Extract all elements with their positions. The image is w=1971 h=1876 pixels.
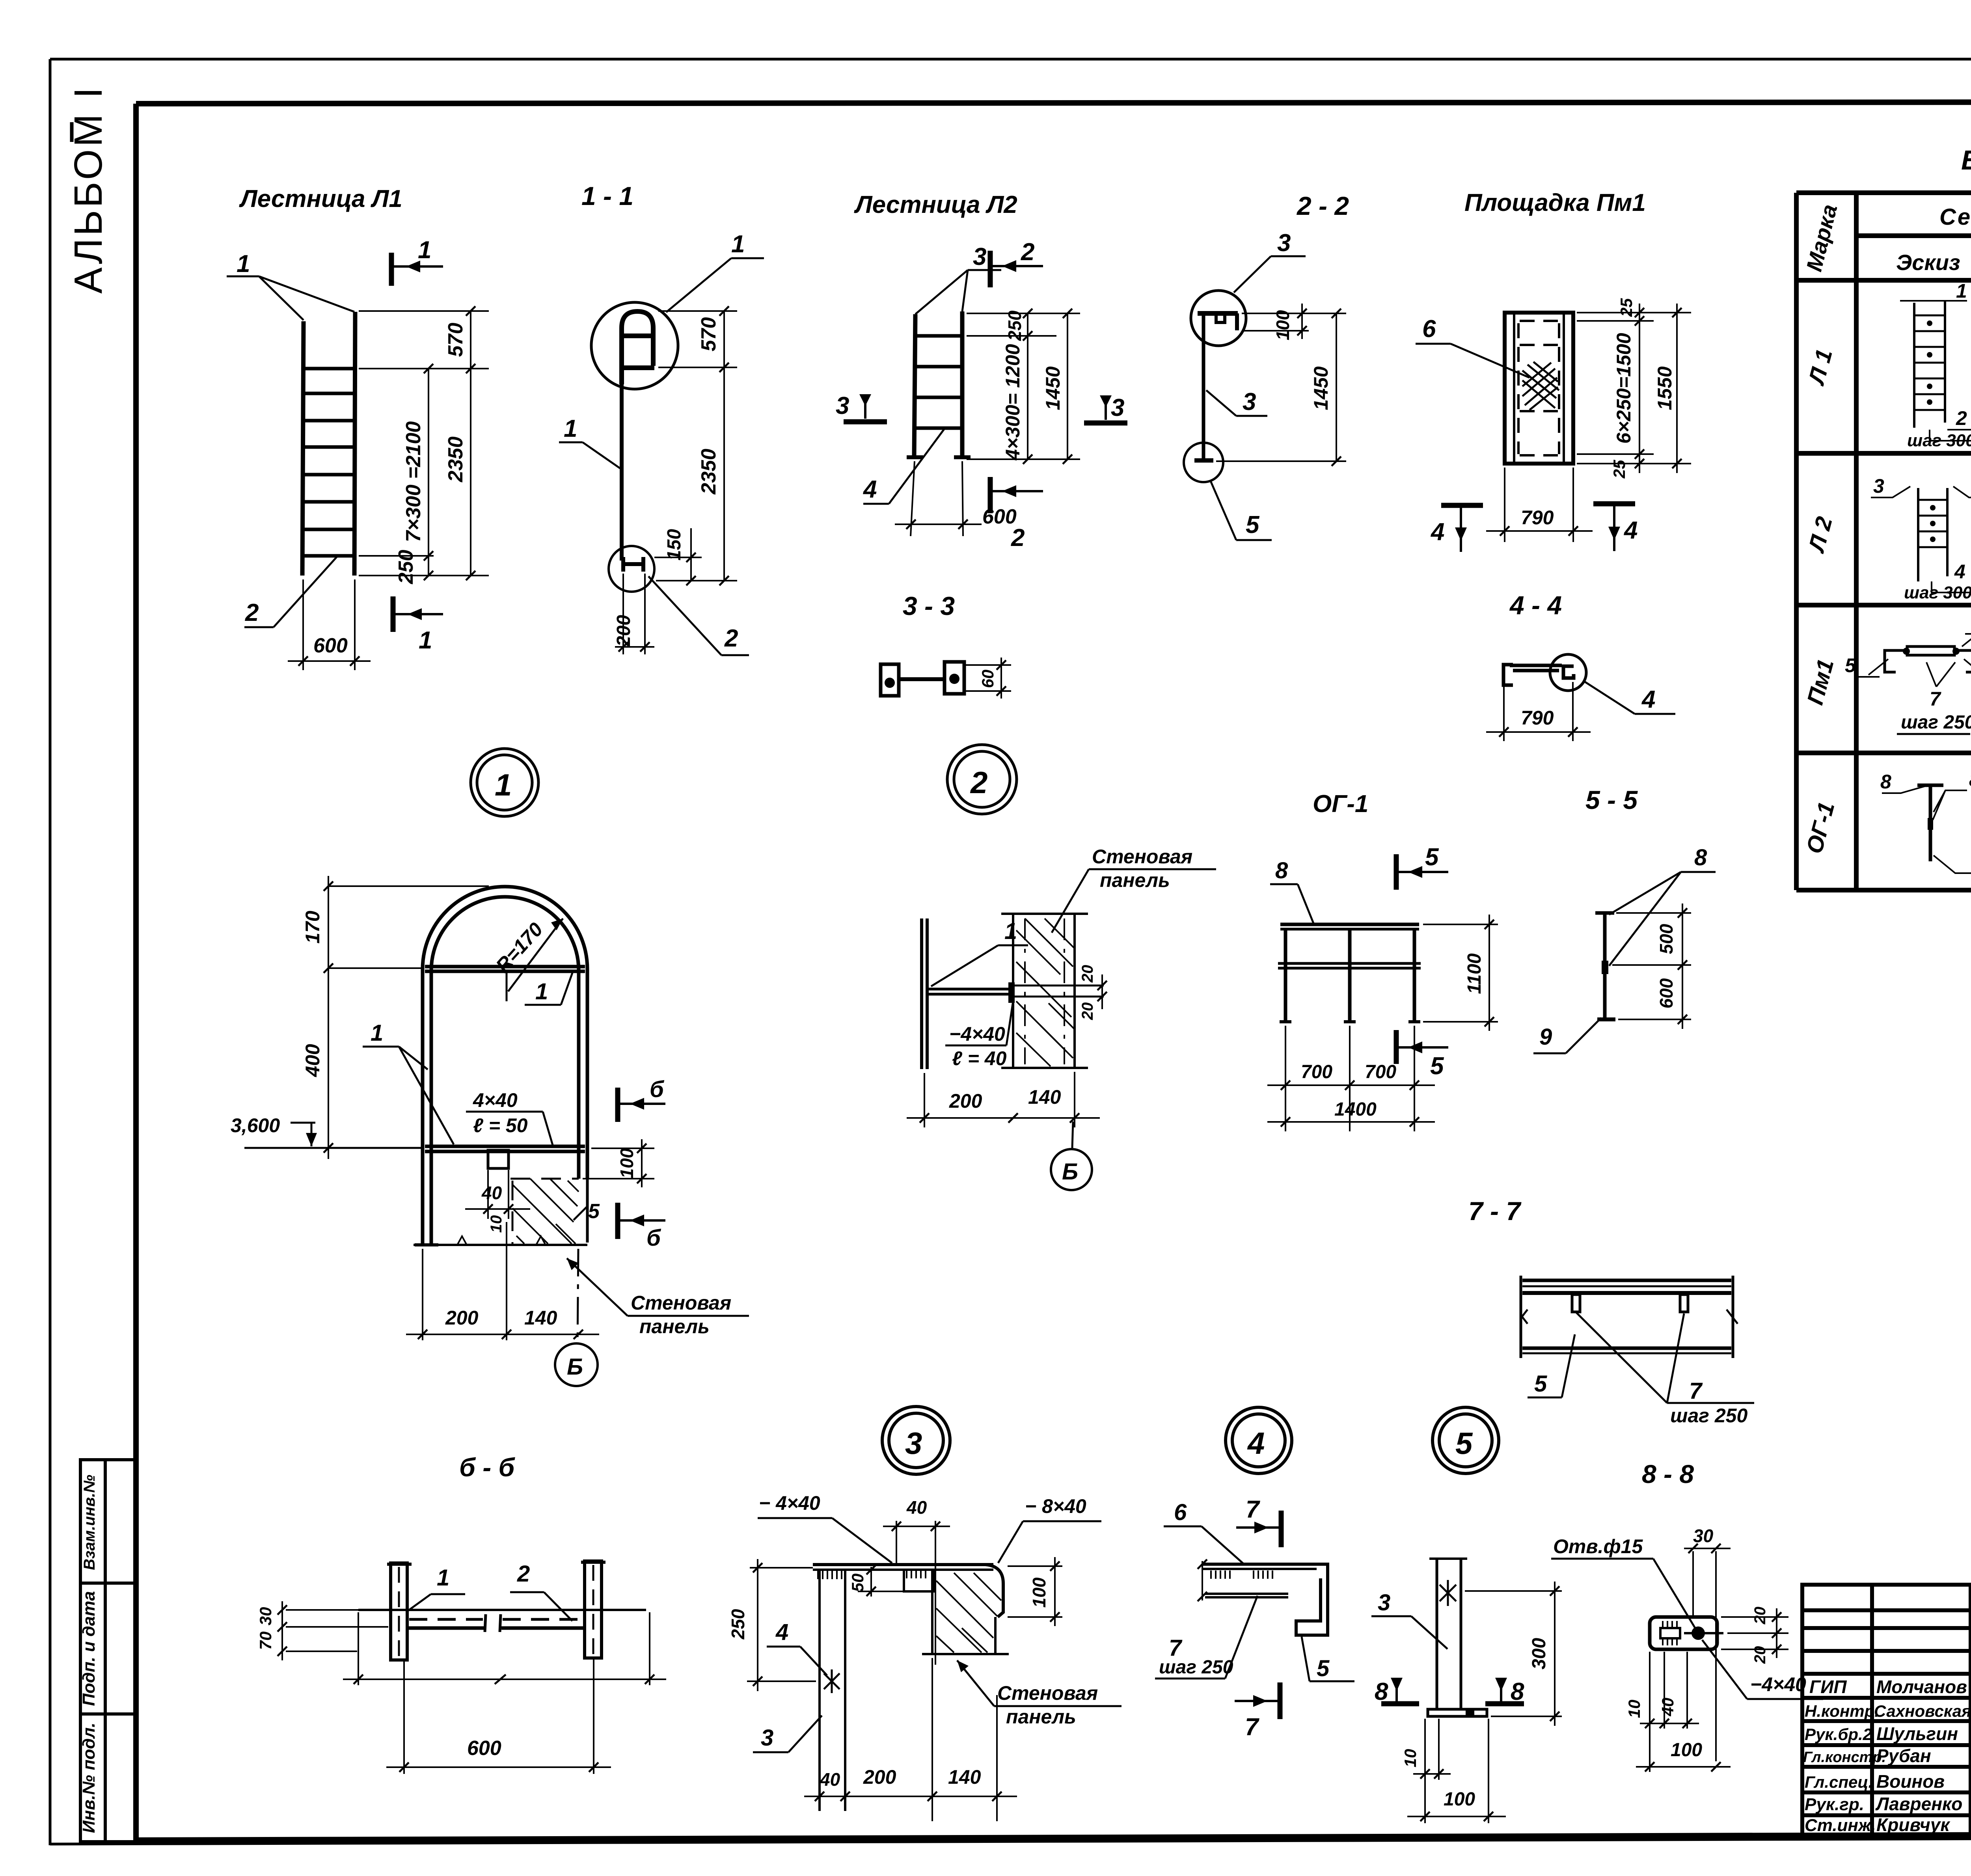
svg-text:150: 150	[664, 529, 685, 561]
svg-text:Лавренко: Лавренко	[1875, 1794, 1962, 1814]
svg-text:1550: 1550	[1654, 366, 1676, 410]
svg-text:2350: 2350	[697, 449, 720, 495]
det4 top plate	[1202, 1561, 1328, 1635]
header row lines	[1856, 233, 1971, 238]
svg-text:Рук.бр.2: Рук.бр.2	[1805, 1725, 1872, 1744]
svg-text:2 - 2: 2 - 2	[1296, 191, 1349, 220]
svg-text:2: 2	[517, 1561, 530, 1587]
svg-text:40: 40	[906, 1497, 927, 1518]
OG-1 bottom dims 700 700 1400	[1267, 1026, 1435, 1131]
svg-text:7: 7	[1930, 688, 1941, 710]
det3 weld X on strap	[824, 1669, 840, 1693]
detail circle 5 callout	[1433, 1407, 1499, 1474]
svg-text:Гл.констр.: Гл.констр.	[1803, 1749, 1886, 1766]
dim 100 det3	[1008, 1557, 1062, 1626]
svg-text:10: 10	[1401, 1749, 1420, 1768]
svg-text:3: 3	[905, 1426, 922, 1461]
section mark 2 top	[990, 251, 1043, 287]
svg-text:Н.контр.: Н.контр.	[1805, 1702, 1879, 1720]
svg-text:1: 1	[535, 979, 548, 1004]
8-8 dims 20 20	[1721, 1608, 1788, 1658]
svg-text:30: 30	[1693, 1526, 1714, 1546]
svg-text:140: 140	[948, 1766, 981, 1788]
svg-text:5: 5	[1317, 1656, 1330, 1681]
8-8 plate	[1650, 1617, 1717, 1649]
label 2 bottom leader	[648, 576, 749, 655]
det4 comb welds	[1211, 1570, 1272, 1579]
svg-text:Ст.инж.: Ст.инж.	[1805, 1816, 1876, 1835]
1-1 rail hook	[622, 311, 654, 384]
svg-text:100: 100	[1671, 1740, 1702, 1760]
table column lines	[1854, 193, 1859, 890]
svg-text:Сечение: Сечение	[1939, 204, 1971, 230]
svg-text:2: 2	[245, 599, 259, 626]
svg-text:3: 3	[1111, 394, 1124, 421]
det5 post	[1429, 1559, 1467, 1709]
svg-text:АЛЬБОМ I: АЛЬБОМ I	[66, 85, 110, 294]
section mark b bottom	[618, 1203, 665, 1239]
Pm1 channel inner lines	[1513, 313, 1515, 464]
svg-text:Стеновая: Стеновая	[631, 1292, 731, 1314]
block divider Pm1/OG1	[1796, 751, 1971, 755]
bottom dims 200 140	[406, 1222, 599, 1340]
svg-text:790: 790	[1521, 507, 1554, 529]
svg-text:400: 400	[302, 1044, 324, 1077]
strap to wall	[927, 988, 1012, 991]
1-1 dim 200 below	[615, 574, 654, 654]
svg-text:7: 7	[1246, 1496, 1260, 1523]
6-6 dim 600	[386, 1660, 611, 1774]
feet	[415, 1243, 438, 1246]
svg-text:ГИП: ГИП	[1809, 1677, 1847, 1697]
detail 2 ladder rail	[922, 918, 1012, 1069]
label 4 leader	[889, 428, 945, 504]
6-6 rung tube	[358, 1610, 646, 1632]
svg-text:шаг 300: шаг 300	[1904, 583, 1971, 602]
svg-text:Стеновая: Стеновая	[1092, 846, 1192, 868]
svg-text:ℓ = 50: ℓ = 50	[473, 1114, 528, 1136]
svg-text:1: 1	[371, 1020, 383, 1046]
det3 corner bar bend	[985, 1565, 1003, 1617]
svg-text:20: 20	[1751, 1646, 1769, 1664]
det5 weld X	[1440, 1580, 1456, 1606]
svg-text:2: 2	[724, 625, 738, 652]
svg-text:10: 10	[488, 1215, 505, 1233]
L1 bottom dim 600	[288, 579, 371, 670]
svg-text:Рук.гр.: Рук.гр.	[1805, 1795, 1864, 1814]
svg-text:панель: панель	[1100, 869, 1170, 891]
axis B det2	[1051, 1122, 1092, 1190]
svg-text:− 8×40: − 8×40	[1025, 1495, 1086, 1517]
svg-text:1: 1	[237, 250, 250, 278]
arch top chord	[425, 965, 585, 969]
2-2 anchor detail circle	[1184, 443, 1223, 482]
svg-text:1 - 1: 1 - 1	[581, 181, 633, 211]
svg-text:570: 570	[697, 317, 720, 352]
label 1 left leg	[363, 1047, 454, 1144]
R=170 radius	[507, 918, 563, 1001]
det3 pocket	[858, 1570, 934, 1591]
svg-text:2: 2	[1021, 238, 1034, 266]
dim 250 det3	[747, 1559, 816, 1691]
svg-text:140: 140	[524, 1307, 557, 1329]
block divider L2/Pm1	[1796, 603, 1971, 607]
4-4 dim 790	[1486, 676, 1591, 741]
7-7 deck assembly	[1521, 1276, 1738, 1358]
det5 bottom dims 10 100	[1407, 1719, 1506, 1823]
svg-text:570: 570	[444, 323, 467, 357]
svg-text:1: 1	[1956, 280, 1967, 302]
section mark 3 left	[844, 394, 887, 422]
svg-text:Шульгин: Шульгин	[1876, 1723, 1958, 1744]
svg-text:б: б	[650, 1077, 665, 1102]
svg-text:40: 40	[820, 1769, 840, 1790]
2-2 bar	[1202, 313, 1205, 460]
label 5 bottom	[1210, 480, 1272, 540]
svg-text:4: 4	[1954, 561, 1965, 583]
svg-text:4: 4	[775, 1619, 788, 1645]
6-6 total length dim	[343, 1612, 666, 1685]
ladder L1 left rail	[227, 276, 355, 576]
section mark 3 right	[1084, 395, 1127, 423]
svg-text:600: 600	[1656, 978, 1677, 1008]
svg-text:1100: 1100	[1464, 953, 1485, 994]
svg-text:70: 70	[256, 1632, 275, 1650]
axis B arch	[555, 1249, 598, 1386]
2-2 top detail circle	[1191, 291, 1246, 346]
svg-text:1: 1	[564, 415, 577, 442]
svg-text:50: 50	[848, 1574, 867, 1592]
1-1 anchor detail circle	[609, 546, 654, 592]
section mark 1 bottom	[393, 596, 443, 632]
svg-text:3: 3	[761, 1725, 773, 1751]
svg-text:5: 5	[1845, 654, 1856, 676]
svg-text:100: 100	[1029, 1577, 1049, 1608]
6-6 left post	[387, 1561, 605, 1660]
section mark 7 top det4	[1236, 1511, 1281, 1547]
svg-text:1: 1	[495, 768, 512, 802]
L2 dims right	[967, 313, 1080, 459]
svg-text:Кривчук: Кривчук	[1876, 1815, 1951, 1835]
svg-text:2350: 2350	[444, 436, 467, 483]
det3 strap vertical	[820, 1570, 845, 1811]
svg-text:шаг 250: шаг 250	[1670, 1405, 1747, 1427]
svg-text:1: 1	[1004, 918, 1017, 944]
svg-text:300: 300	[1529, 1638, 1550, 1669]
svg-text:4: 4	[1623, 517, 1638, 544]
svg-text:500: 500	[1656, 924, 1677, 954]
svg-text:700: 700	[1301, 1062, 1332, 1082]
svg-text:8: 8	[1275, 858, 1288, 883]
arch mid strut	[425, 1145, 585, 1148]
4-4 keyhole detail circle	[1550, 654, 1586, 691]
svg-text:панель: панель	[639, 1315, 710, 1338]
Pm1 hidden plate dashed	[1518, 321, 1559, 455]
eskiz sketch Pm1	[1885, 646, 1971, 672]
svg-text:1: 1	[731, 231, 745, 258]
svg-text:20: 20	[1079, 1002, 1096, 1021]
svg-text:7: 7	[1245, 1714, 1259, 1741]
1-1 bottom anchor	[623, 557, 645, 572]
svg-text:3: 3	[1873, 475, 1884, 497]
4-4 channel left	[1503, 665, 1562, 685]
svg-text:25: 25	[1610, 460, 1628, 479]
svg-text:3: 3	[1243, 388, 1256, 415]
svg-text:7: 7	[1689, 1378, 1703, 1404]
svg-text:790: 790	[1521, 707, 1554, 729]
ladder L1 rungs	[303, 369, 355, 556]
svg-text:40: 40	[1658, 1698, 1677, 1717]
svg-text:Подп. и дата: Подп. и дата	[79, 1591, 99, 1706]
det3 comb welds	[818, 1570, 926, 1579]
2-2 dims right	[1216, 304, 1346, 461]
svg-text:200: 200	[949, 1090, 982, 1112]
svg-text:5: 5	[1430, 1053, 1444, 1080]
2-2 bottom anchor	[1194, 458, 1213, 463]
svg-text:2: 2	[1011, 524, 1025, 551]
svg-text:шаг 250: шаг 250	[1159, 1657, 1233, 1678]
svg-text:5: 5	[1534, 1371, 1547, 1397]
anchor plate at wall	[1008, 982, 1015, 1003]
svg-text:7×300 =2100: 7×300 =2100	[402, 421, 425, 542]
svg-text:Стеновая: Стеновая	[997, 1682, 1098, 1704]
svg-text:4: 4	[1430, 518, 1444, 546]
svg-text:200: 200	[613, 615, 634, 647]
svg-text:−4×40: −4×40	[1750, 1673, 1806, 1695]
label 6 leader	[1416, 344, 1529, 378]
section mark 7 bottom det4	[1235, 1682, 1280, 1719]
svg-text:шаг 250: шаг 250	[1901, 712, 1971, 733]
svg-text:б: б	[646, 1225, 661, 1251]
label 3 top	[1234, 256, 1306, 292]
svg-text:2: 2	[970, 765, 987, 800]
svg-text:4: 4	[1641, 686, 1655, 713]
section mark 5 top	[1396, 854, 1448, 890]
svg-text:− 4×40: − 4×40	[759, 1492, 820, 1514]
svg-text:20: 20	[1079, 965, 1096, 983]
det5 base plate	[1428, 1709, 1487, 1716]
svg-text:6×250=1500: 6×250=1500	[1613, 333, 1635, 443]
svg-text:3: 3	[1277, 229, 1291, 257]
dim 40 pocket	[465, 1170, 530, 1219]
8-8 dims 10 40 100	[1636, 1652, 1731, 1772]
detail circle 3 callout	[882, 1407, 950, 1474]
eskiz sketch L1	[1900, 300, 1971, 441]
svg-text:6: 6	[1422, 315, 1436, 343]
1-1 rail hook detail circle	[591, 302, 678, 389]
svg-text:3 - 3: 3 - 3	[903, 591, 955, 620]
svg-text:4: 4	[1247, 1426, 1265, 1461]
svg-text:Лестница Л2: Лестница Л2	[854, 191, 1017, 218]
wall hatch block	[512, 1179, 579, 1244]
svg-text:250: 250	[395, 550, 417, 585]
section mark 4 left of plan	[1441, 505, 1483, 552]
svg-text:Эскиз: Эскиз	[1896, 250, 1960, 275]
det5 dim 300	[1465, 1582, 1562, 1726]
detail circle 2 callout	[947, 745, 1017, 814]
svg-text:8 - 8: 8 - 8	[1642, 1459, 1694, 1489]
section mark 5 bottom	[1396, 1030, 1448, 1064]
svg-text:30: 30	[256, 1607, 275, 1626]
3-3 rung	[899, 677, 945, 681]
svg-text:Ведомость элементов: Ведомость элементов	[1961, 145, 1971, 175]
L1 dimensions right	[359, 311, 489, 576]
svg-text:8: 8	[1880, 771, 1891, 793]
3-3 left bar section	[881, 662, 964, 696]
svg-text:Гл.спец.: Гл.спец.	[1805, 1773, 1873, 1791]
svg-text:1450: 1450	[1042, 366, 1064, 410]
svg-text:1: 1	[437, 1565, 449, 1591]
dims 20 20 det2	[1101, 974, 1103, 1009]
svg-text:панель: панель	[1006, 1706, 1076, 1728]
anchor rod in wall	[1015, 986, 1104, 997]
title block signature table	[1802, 1585, 1971, 1837]
label 4 leader	[1584, 681, 1675, 714]
svg-text:5: 5	[1455, 1426, 1473, 1461]
L2 bottom dim 600	[895, 461, 982, 536]
dim 100 right	[583, 1139, 654, 1187]
svg-text:Взам.инв.№: Взам.инв.№	[81, 1475, 98, 1570]
svg-text:9: 9	[1539, 1024, 1552, 1050]
svg-text:4 - 4: 4 - 4	[1509, 591, 1562, 620]
post feet	[1280, 1020, 1291, 1023]
svg-text:60: 60	[978, 670, 997, 688]
label 3 leader	[915, 270, 1001, 314]
6-6 dims left 30 70	[282, 1601, 388, 1660]
svg-text:Молчанов: Молчанов	[1876, 1677, 1967, 1697]
svg-text:3,600: 3,600	[231, 1114, 280, 1136]
label 1 top leader	[666, 258, 764, 312]
svg-text:Инв.№ подл.: Инв.№ подл.	[79, 1723, 99, 1833]
5-5 post	[1595, 913, 1615, 1019]
det3 bottom dims 40 200 140	[804, 1658, 1017, 1821]
svg-text:20: 20	[1751, 1607, 1769, 1625]
ladder L2 rails	[863, 270, 1001, 504]
svg-text:шаг 300: шаг 300	[1907, 431, 1971, 450]
3-3 dim 60	[966, 658, 1011, 699]
ground line	[414, 1244, 587, 1246]
arch frame outer	[415, 887, 587, 1245]
7-7 strap tabs	[1572, 1295, 1580, 1312]
svg-text:6: 6	[1174, 1500, 1187, 1525]
section mark 2 bottom	[990, 477, 1043, 513]
section mark 1 top	[391, 253, 443, 286]
svg-text:Рубан: Рубан	[1876, 1746, 1931, 1766]
block divider L1/L2	[1796, 451, 1971, 456]
left side stamp strip	[80, 1460, 135, 1842]
svg-text:1400: 1400	[1334, 1099, 1377, 1120]
svg-text:700: 700	[1365, 1062, 1396, 1082]
svg-text:2: 2	[1956, 407, 1967, 429]
8-8 strap section hatched	[1660, 1628, 1680, 1638]
1-1 dim 150	[654, 528, 702, 581]
detail circle 4 callout	[1226, 1407, 1292, 1474]
svg-text:100: 100	[1272, 310, 1293, 340]
svg-text:25: 25	[1617, 298, 1636, 317]
label 3 mid	[1206, 390, 1267, 416]
svg-text:1: 1	[418, 237, 431, 264]
svg-text:600: 600	[313, 634, 348, 657]
svg-text:Б: Б	[1062, 1159, 1078, 1185]
table frame	[1796, 193, 1971, 890]
ladder L2 rungs	[915, 336, 962, 428]
svg-text:ОГ-1: ОГ-1	[1313, 790, 1368, 818]
anchor pocket	[488, 1150, 509, 1168]
svg-text:3: 3	[1378, 1590, 1390, 1615]
svg-text:4×40: 4×40	[473, 1089, 518, 1111]
arch dims left	[328, 876, 489, 1159]
svg-text:250: 250	[728, 1609, 748, 1639]
L2 feet	[907, 455, 923, 459]
svg-text:3: 3	[973, 243, 986, 270]
label 1 mid leader	[559, 442, 620, 468]
svg-text:200: 200	[445, 1307, 479, 1329]
Pm1 plan outer rect	[1505, 313, 1573, 464]
det4 C channel	[1296, 1564, 1328, 1635]
2-2 top hook	[1198, 313, 1238, 330]
svg-text:5 - 5: 5 - 5	[1585, 785, 1638, 814]
svg-text:Лестница Л1: Лестница Л1	[239, 185, 402, 212]
svg-text:4×300= 1200: 4×300= 1200	[1002, 344, 1024, 460]
det3 wall hatched	[922, 1570, 1009, 1654]
svg-text:5: 5	[588, 1200, 600, 1223]
svg-text:10: 10	[1625, 1700, 1643, 1718]
section mark 4 right of plan	[1593, 504, 1635, 551]
svg-text:б - б: б - б	[459, 1453, 516, 1482]
1-1 rail	[620, 384, 624, 561]
svg-text:8: 8	[1969, 769, 1971, 791]
label 1 chord	[525, 973, 572, 1005]
OG-1 mid rail	[1278, 962, 1421, 965]
end ticks	[1520, 1276, 1522, 1358]
svg-text:Сахновская: Сахновская	[1874, 1702, 1971, 1720]
OG-1 dim 1100	[1423, 915, 1498, 1031]
1-1 dims right	[656, 311, 737, 581]
6-6 right post	[585, 1561, 602, 1658]
ladder L1 right rail	[354, 312, 355, 576]
det3 top plate	[813, 1565, 1003, 1617]
svg-text:40: 40	[481, 1183, 502, 1203]
svg-text:100: 100	[1444, 1789, 1475, 1810]
Pm1 dims right	[1577, 304, 1691, 473]
svg-text:4: 4	[863, 476, 877, 503]
detail circle 1 callout	[471, 749, 538, 816]
label 1 leader	[227, 276, 354, 320]
section mark b top	[618, 1088, 665, 1122]
5-5 dims 500 600	[1612, 904, 1691, 1029]
svg-text:5: 5	[1246, 511, 1260, 538]
svg-text:Отв.ф15: Отв.ф15	[1553, 1535, 1643, 1557]
wall panel detail 2	[1001, 914, 1088, 1068]
svg-text:600: 600	[467, 1737, 501, 1760]
dims 200 140 det2	[907, 1072, 1100, 1127]
svg-text:250: 250	[1004, 310, 1025, 341]
svg-text:Площадка Пм1: Площадка Пм1	[1464, 189, 1646, 216]
eskiz sketch L2	[1871, 486, 1971, 592]
OG-1 top rail	[1278, 924, 1421, 1022]
svg-text:1450: 1450	[1310, 366, 1332, 410]
svg-text:170: 170	[302, 911, 324, 944]
svg-text:3: 3	[836, 392, 849, 419]
OG-1 posts	[1284, 929, 1287, 1022]
svg-text:Воинов: Воинов	[1876, 1771, 1945, 1792]
eskiz sketch OG-1	[1882, 785, 1971, 873]
svg-text:Б: Б	[567, 1354, 583, 1380]
svg-text:5: 5	[1425, 844, 1439, 871]
svg-text:140: 140	[1028, 1086, 1061, 1108]
svg-text:200: 200	[863, 1766, 896, 1788]
svg-text:8: 8	[1694, 845, 1707, 870]
